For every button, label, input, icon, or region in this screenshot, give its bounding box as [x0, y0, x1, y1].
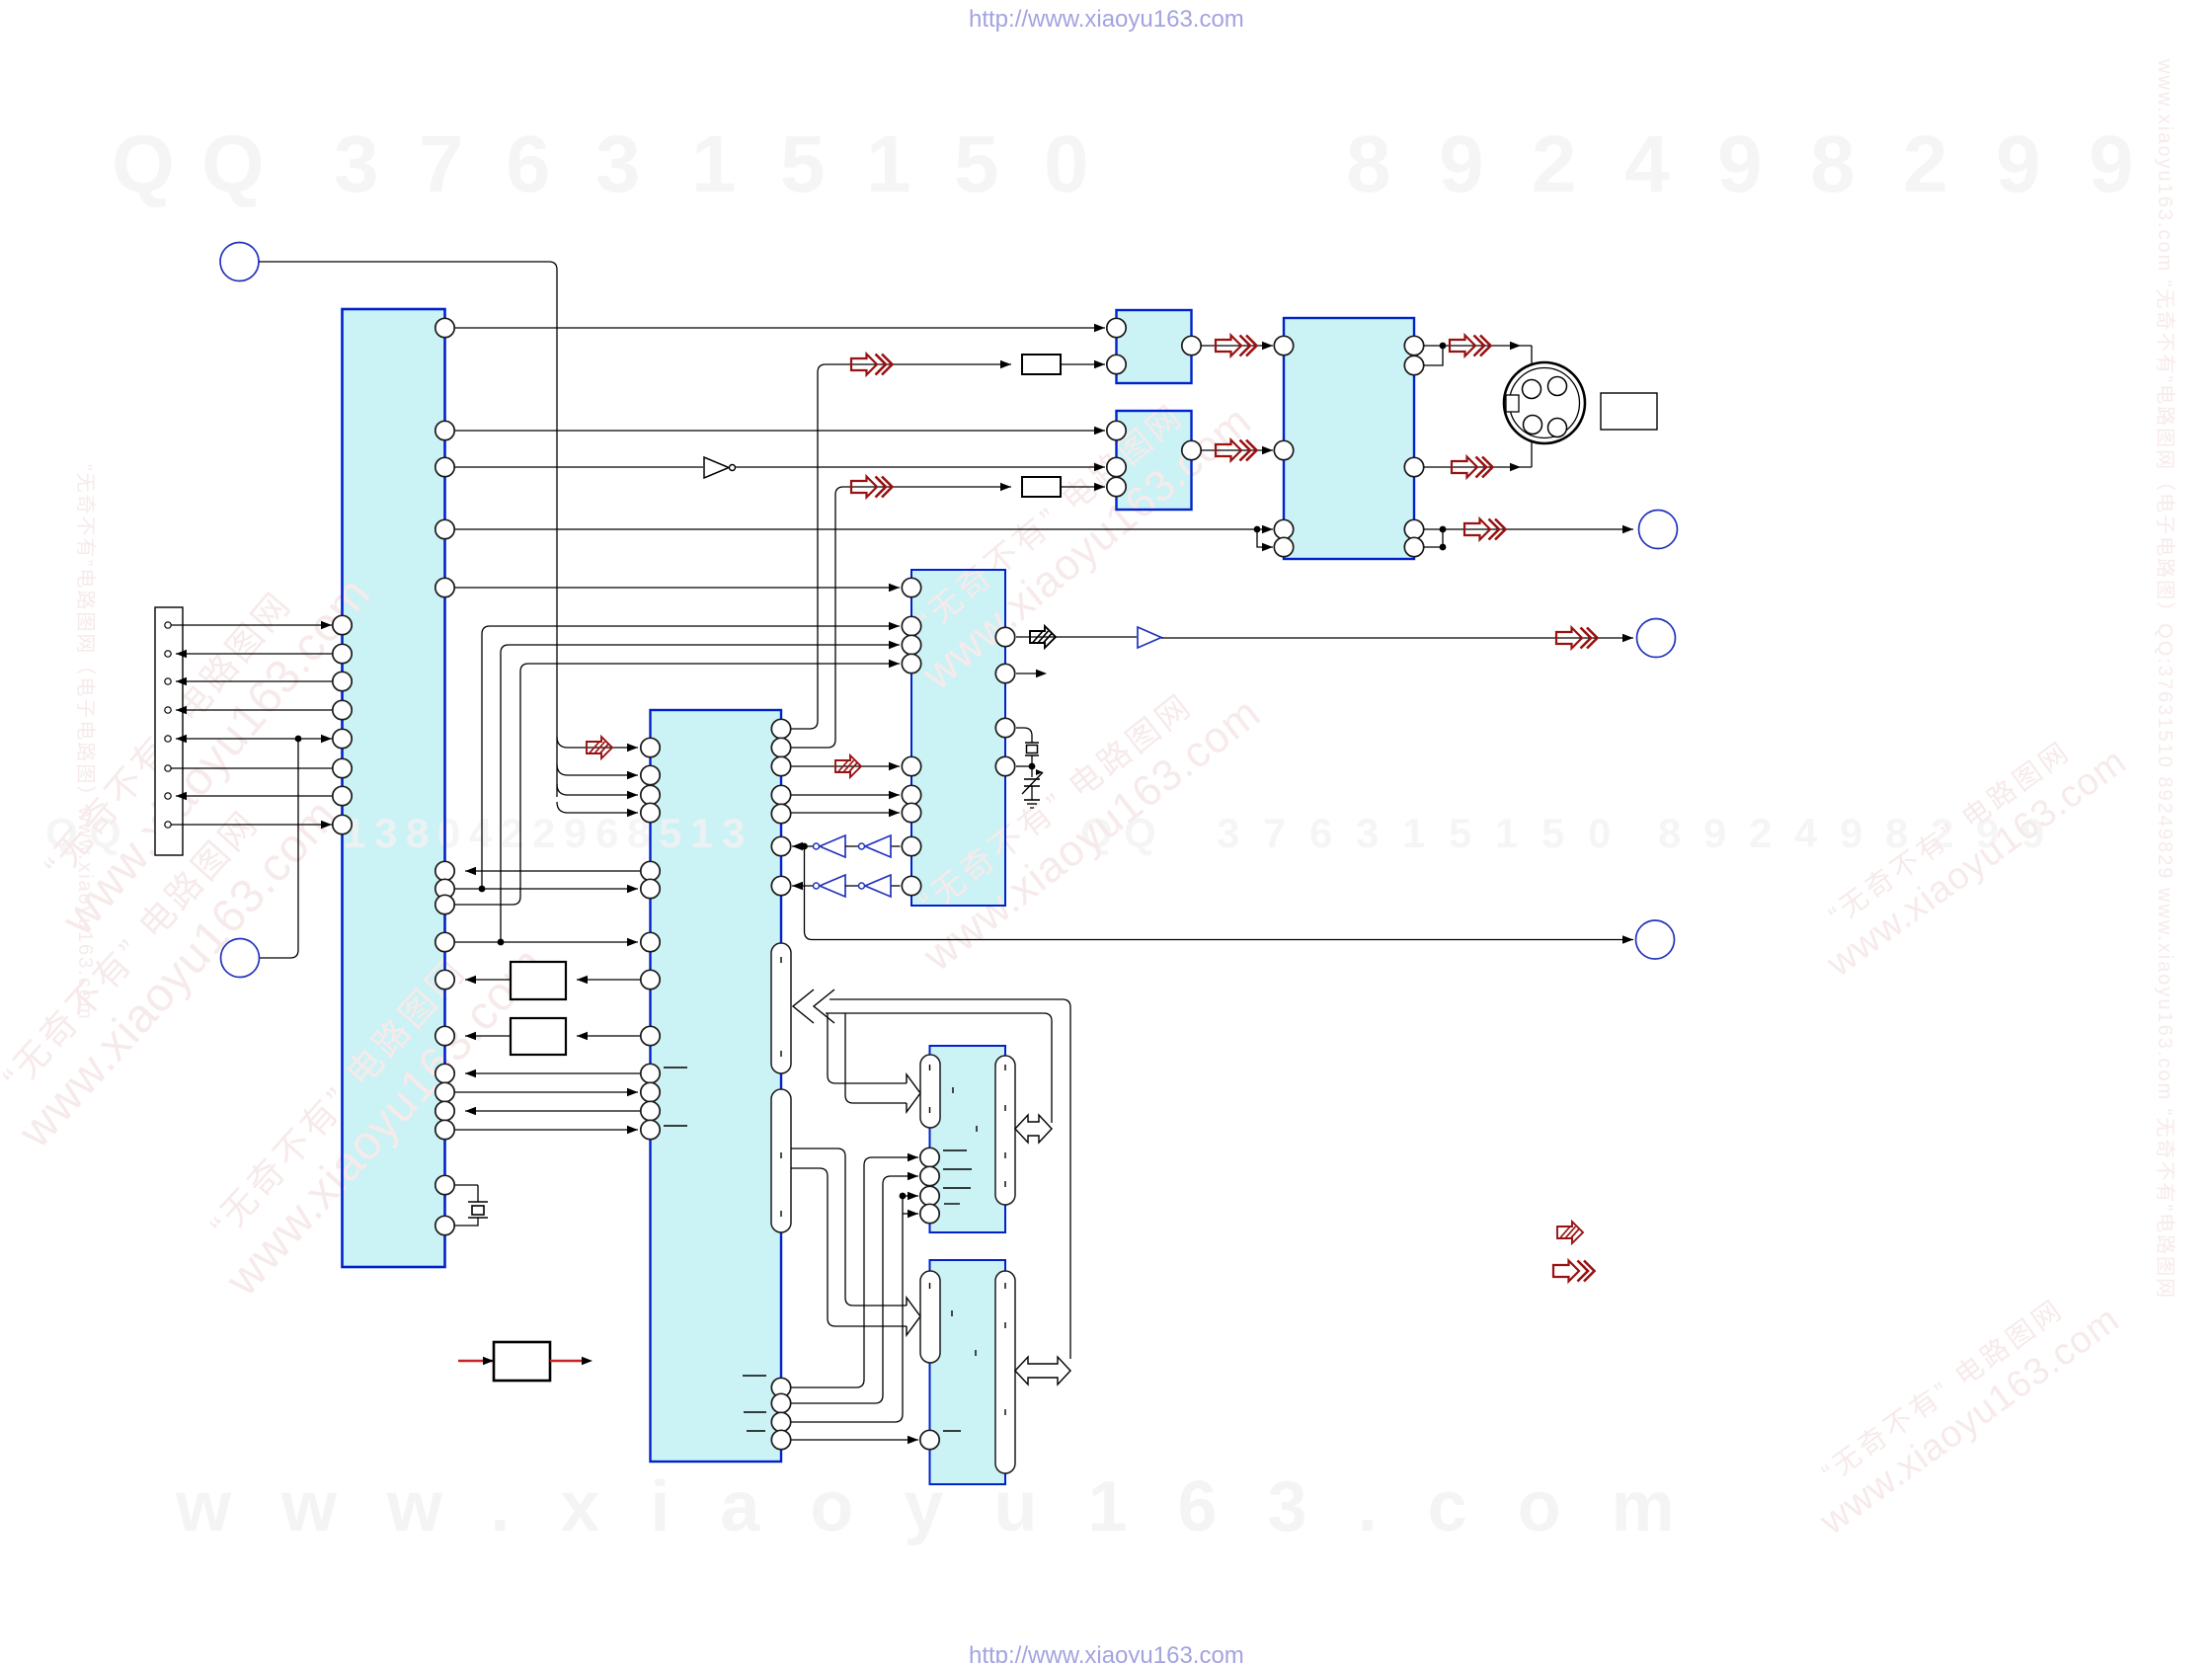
- J1 pin 3: [1524, 416, 1542, 435]
- IC U7 (memory upper) body fill: [930, 1046, 1006, 1232]
- wire U6 to J1 (row 473): [1424, 466, 1532, 468]
- IC U1 (main controller) body fill: [343, 309, 445, 1267]
- svg-text:www.xiaoyu163.com “无奇不有”电路图网（电: www.xiaoyu163.com “无奇不有”电路图网（电子电路图）QQ:37…: [2154, 58, 2176, 1300]
- bus arrow marker (hatched): [587, 737, 612, 758]
- delay element Z1 (box): [511, 962, 566, 999]
- J1 pin 1: [1523, 380, 1541, 399]
- junction node J: [900, 1193, 907, 1200]
- wire node A down to terminal T2: [260, 739, 298, 958]
- bus block-arrow head into U8 port: [907, 1298, 920, 1335]
- branch node E to U6 pin row370: [1424, 346, 1443, 365]
- wire U3 aux output (row 682): [1016, 673, 1039, 674]
- wire U2 to U7 pin A0: [791, 1157, 918, 1387]
- wire U5 to U6 pin2 with chevron: [1201, 449, 1273, 451]
- U2 internal label dashes: [664, 1067, 687, 1069]
- wire U3 to crystal X2: [1016, 728, 1032, 743]
- wire U1 to U4 pin1: [454, 327, 1105, 329]
- wire G4 output to U2 (arrow left): [792, 885, 813, 887]
- resistor R1: [1022, 355, 1061, 374]
- wire U1 to CN1-2 (arrow left): [176, 653, 333, 655]
- wire U1 to CN1-4 (arrow left): [176, 709, 333, 711]
- wire U2 to Z1 (arrow left): [577, 979, 641, 981]
- svg-text:http://www.xiaoyu163.com: http://www.xiaoyu163.com: [969, 6, 1244, 33]
- IC U2 (center large block) outline: [651, 710, 782, 1462]
- S-video connector J1: [1504, 362, 1585, 443]
- terminal T2 (left middle): [221, 939, 260, 978]
- IC U4 (small top block) body fill: [1117, 310, 1192, 383]
- svg-text:0: 0: [437, 810, 460, 856]
- wire U2 to U1 (row 1125, arrow left): [465, 1110, 641, 1112]
- svg-text:5: 5: [1541, 810, 1564, 856]
- legend chevron arrow symbol: [1553, 1261, 1595, 1282]
- U6 right pins: [1404, 336, 1423, 355]
- bus port P3 on U7 (left pill): [920, 1055, 940, 1128]
- bus block-arrow head into U7 port: [907, 1074, 920, 1112]
- wire U2 row757 up to R2 row493: [791, 487, 1011, 748]
- delay element Z2 (box): [511, 1018, 566, 1055]
- buffer G6 (blue): [1138, 627, 1161, 648]
- wire node H down to trimmer C1: [1031, 766, 1033, 777]
- svg-text:2: 2: [1749, 810, 1772, 856]
- U3 left pins: [902, 578, 920, 596]
- ground: [1024, 799, 1040, 801]
- svg-text:3: 3: [722, 810, 745, 856]
- svg-text:9: 9: [1996, 119, 2041, 209]
- svg-text:www.xiaoyu163.com: www.xiaoyu163.com: [51, 568, 380, 946]
- wire U1 to inverter G1: [454, 466, 703, 468]
- U6 left pins: [1274, 336, 1293, 355]
- svg-text:6: 6: [595, 810, 618, 856]
- IC U5 (small middle block) outline: [1117, 411, 1192, 510]
- bus port P5 on U8 (left pill): [920, 1271, 940, 1363]
- wire G6 to terminal T5: [1161, 637, 1633, 639]
- svg-text:2: 2: [1532, 119, 1577, 209]
- wire U1 row916 up to U3 pin4: [454, 664, 900, 905]
- IC U6 (output driver) body fill: [1284, 318, 1414, 559]
- svg-text:3: 3: [1217, 810, 1239, 856]
- wire U2 to U1 (row 882, arrow left): [465, 870, 641, 872]
- svg-text:0: 0: [1588, 810, 1611, 856]
- wire U3 to inverter G3 (row 857): [891, 845, 901, 847]
- connector CN1: [155, 607, 183, 855]
- svg-text:6: 6: [1309, 810, 1332, 856]
- inverter G5 (blue): [820, 875, 845, 897]
- U1 right pins: [435, 318, 454, 337]
- wire CN1-6 to U1: [171, 767, 333, 769]
- inverter G4 (blue): [865, 875, 891, 897]
- wire Z2 to U1 (arrow left): [465, 1035, 511, 1037]
- svg-text:3: 3: [1356, 810, 1379, 856]
- wire (red) into box K1: [458, 1360, 494, 1363]
- IC U3 (video encoder) body fill: [911, 570, 1005, 906]
- label box near J1: [1601, 393, 1657, 430]
- U8 pin: [920, 1430, 939, 1449]
- junction node D: [801, 843, 808, 850]
- wire U2 to U7 pin A1: [791, 1176, 918, 1403]
- svg-text:3: 3: [334, 119, 379, 209]
- wire U2 to U7 pin A2/A3: [791, 1196, 903, 1422]
- signal box K1: [494, 1342, 550, 1381]
- U5 pins: [1107, 421, 1126, 439]
- IC U8 (memory lower) outline: [930, 1260, 1006, 1484]
- bus marker chevron row493: [851, 477, 893, 498]
- bus port P6 on U8 (right pill): [995, 1271, 1015, 1473]
- wire U1 to U6 pins (row 536): [454, 528, 1273, 530]
- inverter G1: [704, 457, 729, 478]
- wire CN1-1 to U1 (arrow right): [171, 624, 332, 626]
- bus port P4 on U7 (right pill): [995, 1056, 1015, 1205]
- svg-text:Q: Q: [112, 119, 175, 209]
- bus entry curves into U2 left pins: [557, 737, 638, 748]
- svg-text:9: 9: [1840, 810, 1862, 856]
- wire G3 to G2: [845, 845, 858, 847]
- wire U6 to S-video J1 (row 350): [1424, 345, 1532, 347]
- U7 interior ticks: [952, 1087, 954, 1093]
- wire U1 to U3 pin1 (row 595): [454, 587, 900, 589]
- svg-text:1: 1: [1402, 810, 1425, 856]
- svg-text:1: 1: [866, 119, 911, 209]
- svg-text:9: 9: [1439, 119, 1484, 209]
- bus port P2 on U2 (lower pill): [771, 1089, 791, 1232]
- bus branch down to U7 write arrow: [828, 1013, 907, 1083]
- bus double arrow U8 to bus: [1015, 1357, 1070, 1385]
- U4 pins: [1107, 318, 1126, 337]
- wire U1 to U2 (row 954, arrow right): [454, 941, 638, 943]
- wire X2 to node H: [1031, 755, 1033, 766]
- svg-text:0: 0: [1044, 119, 1089, 209]
- wire U2 to U3 (row 776) with hatched marker: [791, 765, 900, 767]
- U1 left pins: [333, 615, 352, 634]
- bus double arrow U7 to bus: [1015, 1115, 1052, 1143]
- wire U3 to inverter G5 (row 897): [891, 885, 901, 887]
- wire node C up to U3 pin3: [501, 645, 900, 942]
- wire node B up to U3 pin2: [482, 626, 900, 889]
- wire U1 to crystal X1 top: [454, 1185, 478, 1202]
- wire C1 to ground: [1031, 786, 1033, 800]
- svg-text:7: 7: [1263, 810, 1286, 856]
- wire J1 vertical entry top: [1531, 346, 1533, 386]
- bus lines from P2 down to U8 write arrow: [791, 1148, 907, 1306]
- wire U2 to U1 (row 1087, arrow left): [465, 1072, 641, 1074]
- wire U2 to U8 pin (row 1458): [791, 1439, 918, 1441]
- junction node E: [1440, 343, 1447, 350]
- svg-text:www.xiaoyu163.com: www.xiaoyu163.com: [1819, 741, 2134, 986]
- svg-text:www.xiaoyu163.com: www.xiaoyu163.com: [1812, 1299, 2127, 1544]
- svg-text:3: 3: [374, 810, 397, 856]
- U7 address pins: [920, 1148, 939, 1166]
- svg-text:5: 5: [780, 119, 826, 209]
- IC U2 (center large block) body fill: [651, 710, 782, 1462]
- wire U3 row776 to node H: [1016, 765, 1032, 767]
- svg-text:www.xiaoyu163.com: www.xiaoyu163.com: [912, 396, 1261, 699]
- svg-text:6: 6: [506, 119, 551, 209]
- svg-text:7: 7: [419, 119, 464, 209]
- decorative watermark (skip): [112, 119, 2134, 209]
- wire CN1-5 / U1 bidirectional with junction: [176, 738, 333, 740]
- wire (red) out of box K1: [550, 1360, 585, 1363]
- inverter G2 (blue): [865, 835, 891, 857]
- wire R1 to U4 pin2: [1061, 363, 1105, 365]
- wire T1 to U2 bus (long vertical): [259, 262, 557, 797]
- IC U8 (memory lower) body fill: [930, 1260, 1006, 1484]
- wire G2 output to U2 (arrow left): [792, 845, 813, 847]
- svg-text:“无奇不有”电路图网（电子电路图）www.xiaoyu163: “无奇不有”电路图网（电子电路图）www.xiaoyu163.com: [74, 464, 97, 1021]
- terminal T4 (audio out): [1636, 920, 1675, 959]
- svg-text:4: 4: [1624, 119, 1670, 209]
- IC U7 (memory upper) outline: [930, 1046, 1006, 1232]
- wire U6 to terminal T3 (row 536): [1424, 528, 1633, 530]
- U8 pin label dash: [943, 1430, 961, 1432]
- svg-text:5: 5: [659, 810, 681, 856]
- svg-text:8: 8: [1346, 119, 1391, 209]
- wire U1 to U5 pin1: [454, 430, 1105, 432]
- svg-text:9: 9: [2089, 119, 2134, 209]
- wire CN1-8 to U1 (arrow right): [171, 824, 332, 826]
- svg-text:Q: Q: [201, 119, 265, 209]
- branch to U6 pin row 554: [1257, 529, 1273, 547]
- U3 right pins: [995, 627, 1014, 646]
- U2 right pins: [771, 719, 790, 738]
- IC U3 (video encoder) outline: [911, 570, 1005, 906]
- wire U1 to U2 (row 1144, arrow right): [454, 1129, 638, 1131]
- trimmer capacitor C1: [1024, 778, 1040, 780]
- signal marker (black hatched arrow): [1030, 626, 1056, 648]
- wire U2 row738 up to R1 row369: [791, 364, 1011, 729]
- wire U1 to U2 (row 1106, arrow right): [454, 1091, 638, 1093]
- junction node F: [1440, 526, 1447, 533]
- IC U6 (output driver) outline: [1284, 318, 1414, 559]
- U7 pin labels (dashes): [943, 1149, 967, 1151]
- wire U4 to U6 pin1 with chevron: [1201, 345, 1273, 347]
- svg-text:9: 9: [1717, 119, 1763, 209]
- wire U1 to CN1-7 (arrow left): [176, 795, 333, 797]
- svg-text:1: 1: [690, 810, 713, 856]
- resistor R2: [1022, 477, 1061, 497]
- junction node H: [1029, 763, 1036, 770]
- wire U1 to CN1-3 (arrow left): [176, 680, 333, 682]
- svg-text:8: 8: [406, 810, 429, 856]
- wire X1 bottom to U1: [454, 1218, 478, 1226]
- svg-text:4: 4: [1794, 810, 1818, 856]
- IC U1 (main controller) outline: [343, 309, 445, 1267]
- crystal X1: [468, 1201, 488, 1203]
- wire G1 to U5 pin2: [736, 466, 1105, 468]
- wire U3 to buffer G6 and T5 (row 645): [1016, 636, 1137, 638]
- bus double-chevron head at P1: [793, 990, 814, 1023]
- branch to U6 pin row554: [1424, 529, 1443, 547]
- svg-text:5: 5: [954, 119, 999, 209]
- bus port P1 on U2 (upper pill): [771, 943, 791, 1073]
- wire U1 to U2 (row 900, arrow right): [454, 888, 638, 890]
- svg-text:http://www.xiaoyu163.com: http://www.xiaoyu163.com: [969, 1642, 1244, 1663]
- svg-text:3: 3: [595, 119, 641, 209]
- bus line lower: [826, 1013, 1052, 1123]
- bus line upper: [829, 999, 1070, 1359]
- junction on row 536: [1254, 526, 1261, 533]
- svg-text:2: 2: [532, 810, 555, 856]
- J1 pin 4: [1548, 419, 1567, 437]
- bus marker chevron row369: [851, 355, 893, 375]
- wire U2 to Z2 (arrow left): [577, 1035, 641, 1037]
- crystal X2: [1025, 742, 1039, 744]
- U8 interior ticks: [951, 1310, 953, 1316]
- legend hatched arrow symbol: [1557, 1222, 1583, 1243]
- junction node A: [295, 736, 302, 743]
- svg-text:9: 9: [564, 810, 587, 856]
- wire J1 vertical entry bottom: [1531, 432, 1533, 467]
- wire R2 to U5 pin3: [1061, 486, 1105, 488]
- IC U4 (small top block) outline: [1117, 310, 1192, 383]
- wire U2 to U3 (row 805): [791, 794, 900, 796]
- wire node D to terminal T4 (long row 951): [805, 846, 1634, 940]
- wire Z1 to U1 (arrow left): [465, 979, 511, 981]
- svg-text:8: 8: [1810, 119, 1856, 209]
- junction node G: [1440, 544, 1447, 551]
- J1 pin 2: [1548, 377, 1567, 396]
- svg-text:9: 9: [1703, 810, 1726, 856]
- IC U5 (small middle block) body fill: [1117, 411, 1192, 510]
- svg-text:1: 1: [1495, 810, 1518, 856]
- svg-text:www.xiaoyu163.com: www.xiaoyu163.com: [175, 1467, 1725, 1546]
- svg-text:4: 4: [469, 810, 493, 856]
- terminal T3 (video out): [1639, 511, 1678, 549]
- inverter G3 (blue): [820, 835, 845, 857]
- svg-text:5: 5: [1449, 810, 1471, 856]
- junction node C: [498, 939, 505, 946]
- U2 left pins: [641, 738, 660, 756]
- junction node B: [479, 886, 486, 893]
- wire U2 to U3 (row 823): [791, 812, 900, 814]
- svg-text:2: 2: [1903, 119, 1948, 209]
- terminal T5: [1637, 619, 1676, 658]
- svg-text:8: 8: [1658, 810, 1681, 856]
- wire G5 to G4: [845, 885, 858, 887]
- terminal T1 (top left): [220, 243, 259, 281]
- svg-text:1: 1: [691, 119, 737, 209]
